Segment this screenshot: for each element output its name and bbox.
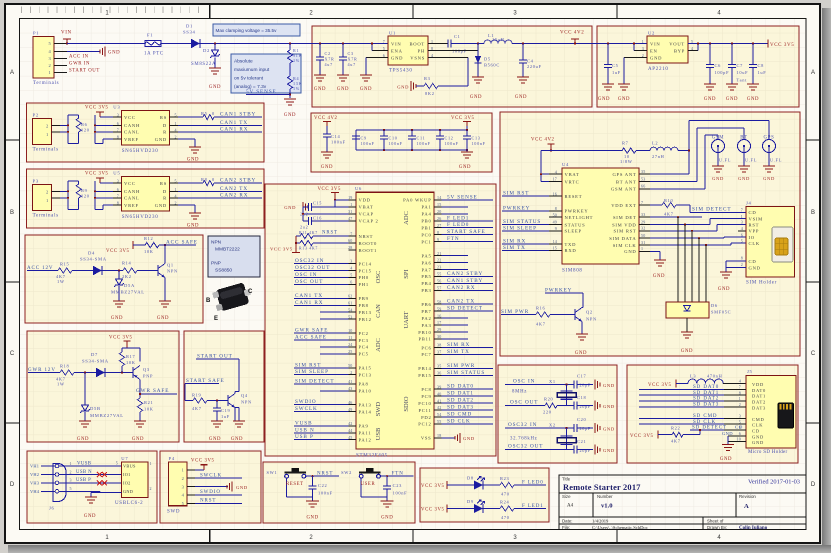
svg-text:59: 59	[437, 306, 441, 311]
svg-text:Date:: Date:	[562, 519, 573, 524]
svg-text:Revision: Revision	[739, 494, 756, 499]
svg-text:GND: GND	[108, 51, 120, 56]
svg-text:Q4: Q4	[241, 393, 248, 398]
svg-text:PB10: PB10	[418, 330, 431, 335]
svg-text:Title: Title	[562, 477, 571, 482]
svg-text:VRTC: VRTC	[565, 179, 580, 184]
svg-text:GND: GND	[575, 351, 587, 356]
svg-text:31: 31	[641, 240, 645, 245]
svg-text:U3: U3	[113, 104, 120, 109]
svg-text:1%: 1%	[293, 86, 300, 91]
svg-text:C17: C17	[577, 374, 587, 379]
svg-text:PA5: PA5	[422, 253, 432, 258]
svg-text:SW2: SW2	[341, 470, 352, 475]
svg-text:50: 50	[553, 212, 557, 217]
svg-text:SIM STATUS: SIM STATUS	[447, 370, 485, 376]
svg-text:VCC 3V5: VCC 3V5	[451, 116, 475, 121]
svg-text:F LED0: F LED0	[522, 480, 544, 485]
svg-text:16: 16	[553, 191, 557, 196]
svg-text:9: 9	[555, 226, 557, 231]
svg-text:27nH: 27nH	[652, 154, 665, 159]
svg-text:6: 6	[739, 431, 741, 436]
svg-text:PC6: PC6	[421, 345, 431, 350]
svg-text:GND: GND	[209, 85, 221, 90]
svg-text:J5: J5	[747, 369, 753, 374]
svg-text:U.FL: U.FL	[719, 158, 731, 163]
svg-text:C7: C7	[737, 63, 744, 68]
svg-text:RST: RST	[749, 222, 760, 227]
svg-text:OSC IN: OSC IN	[513, 379, 535, 385]
svg-text:2K2: 2K2	[122, 274, 132, 279]
svg-text:43: 43	[348, 386, 352, 391]
svg-text:A4: A4	[567, 504, 574, 509]
svg-text:GND: GND	[747, 97, 759, 102]
svg-text:C9: C9	[361, 136, 367, 141]
svg-text:PC3: PC3	[359, 338, 369, 343]
svg-text:3: 3	[70, 478, 72, 483]
svg-text:J4: J4	[746, 201, 752, 206]
svg-text:GND: GND	[681, 349, 693, 354]
svg-text:X7R: X7R	[348, 57, 358, 62]
svg-text:D1: D1	[186, 24, 193, 29]
svg-text:v1.0: v1.0	[601, 503, 613, 510]
svg-text:on 5v tolerant: on 5v tolerant	[234, 76, 264, 82]
svg-text:USER: USER	[361, 482, 376, 487]
svg-text:PB8: PB8	[359, 303, 369, 308]
svg-text:20pF: 20pF	[580, 426, 591, 431]
svg-text:U.FL: U.FL	[770, 158, 782, 163]
svg-text:CAN1 STBY: CAN1 STBY	[220, 112, 256, 118]
svg-text:BOOT: BOOT	[409, 41, 425, 46]
svg-text:VH1: VH1	[30, 464, 39, 469]
svg-text:GSM ANT: GSM ANT	[611, 187, 637, 192]
svg-text:8: 8	[739, 390, 741, 395]
svg-text:SIM Holder: SIM Holder	[746, 281, 777, 286]
svg-text:SWDIO: SWDIO	[200, 490, 221, 495]
svg-text:GPS ANT: GPS ANT	[612, 172, 636, 177]
svg-text:MMBZ27VAL: MMBZ27VAL	[90, 413, 124, 418]
svg-text:U6: U6	[355, 186, 362, 191]
svg-text:D: D	[163, 189, 167, 194]
svg-text:SIM STATUS: SIM STATUS	[503, 219, 541, 225]
svg-text:Remote Starter 2017: Remote Starter 2017	[563, 483, 641, 492]
svg-text:5V SENSE: 5V SENSE	[246, 89, 277, 95]
svg-text:RESET: RESET	[286, 482, 304, 487]
svg-text:CAN1 STBY: CAN1 STBY	[447, 278, 483, 284]
svg-text:1: 1	[642, 39, 644, 44]
svg-text:USBLC6-2: USBLC6-2	[115, 501, 143, 506]
svg-text:PA13: PA13	[359, 403, 372, 408]
svg-text:CAN1 RX: CAN1 RX	[220, 126, 248, 132]
svg-text:1W: 1W	[57, 279, 65, 284]
svg-text:42: 42	[348, 421, 352, 426]
svg-text:R5: R5	[201, 111, 208, 116]
svg-text:1uF: 1uF	[758, 70, 767, 75]
svg-text:SD CMD: SD CMD	[693, 414, 717, 419]
svg-text:7: 7	[350, 231, 352, 236]
svg-text:R9: R9	[81, 188, 88, 193]
svg-text:CAN2 STBY: CAN2 STBY	[447, 271, 483, 277]
svg-text:27: 27	[437, 223, 441, 228]
svg-text:GND: GND	[653, 274, 665, 279]
svg-text:1: 1	[46, 132, 48, 137]
svg-text:53: 53	[348, 314, 352, 319]
svg-text:START OUT: START OUT	[69, 69, 100, 74]
svg-text:R13 4K7: R13 4K7	[299, 246, 318, 250]
svg-text:18: 18	[437, 433, 441, 438]
svg-text:100nF: 100nF	[389, 141, 403, 146]
svg-text:38: 38	[437, 343, 441, 348]
svg-text:1: 1	[46, 198, 48, 203]
svg-text:8: 8	[741, 256, 743, 261]
svg-text:D5: D5	[484, 57, 491, 62]
svg-text:SS34: SS34	[183, 30, 196, 35]
svg-text:GND: GND	[187, 158, 199, 163]
svg-text:17: 17	[553, 177, 557, 182]
svg-text:SIM TX: SIM TX	[447, 349, 470, 355]
svg-text:TXD: TXD	[565, 242, 577, 247]
svg-text:SIM CLK: SIM CLK	[613, 243, 637, 248]
svg-text:GND: GND	[618, 97, 630, 102]
svg-text:P2: P2	[33, 113, 39, 118]
svg-text:OSC OUT: OSC OUT	[295, 279, 323, 285]
svg-text:CD: CD	[749, 210, 757, 215]
svg-text:8: 8	[437, 230, 439, 235]
svg-text:20: 20	[437, 209, 441, 214]
svg-text:GND: GND	[720, 457, 732, 462]
svg-text:SD DAT1: SD DAT1	[447, 391, 474, 397]
svg-text:GND: GND	[603, 404, 615, 409]
svg-text:Q1: Q1	[167, 263, 174, 268]
svg-text:B: B	[206, 298, 211, 304]
svg-text:4: 4	[350, 266, 352, 271]
svg-text:R11 4K7: R11 4K7	[299, 231, 318, 235]
svg-text:GND: GND	[650, 55, 662, 60]
svg-text:GWR SAFE: GWR SAFE	[295, 328, 328, 334]
svg-text:SD DAT3: SD DAT3	[693, 403, 719, 408]
svg-text:CAN: CAN	[375, 304, 382, 318]
svg-text:Terminals: Terminals	[33, 81, 59, 86]
svg-text:1: 1	[739, 396, 741, 401]
svg-text:9: 9	[437, 237, 439, 242]
svg-text:Terminals: Terminals	[33, 148, 59, 153]
svg-text:PB15: PB15	[418, 373, 431, 378]
svg-text:1W: 1W	[57, 381, 65, 386]
svg-text:GND: GND	[752, 440, 764, 445]
svg-text:U7: U7	[121, 456, 128, 461]
svg-text:NPN: NPN	[211, 240, 222, 246]
svg-text:VCC 3V5: VCC 3V5	[191, 458, 215, 463]
svg-text:470nH: 470nH	[707, 373, 723, 378]
svg-text:29: 29	[641, 219, 645, 224]
svg-text:R14: R14	[122, 260, 132, 265]
svg-text:TPS5430: TPS5430	[389, 69, 413, 74]
svg-text:GWR SAFE: GWR SAFE	[136, 388, 169, 394]
svg-text:Colin Iuliano: Colin Iuliano	[739, 526, 768, 531]
svg-text:VCAP: VCAP	[359, 212, 374, 217]
svg-text:VSS: VSS	[421, 436, 432, 441]
svg-text:C13: C13	[472, 136, 481, 141]
svg-text:PB7: PB7	[421, 309, 431, 314]
svg-text:maxiumum input: maxiumum input	[234, 67, 270, 73]
svg-text:GND: GND	[77, 437, 89, 442]
svg-text:Number: Number	[597, 494, 613, 499]
svg-text:SIM RST: SIM RST	[503, 191, 529, 197]
svg-text:R24: R24	[500, 500, 510, 505]
svg-text:1A PTC: 1A PTC	[144, 52, 164, 57]
svg-text:14: 14	[553, 239, 557, 244]
svg-text:DAT2: DAT2	[752, 400, 766, 405]
svg-text:OSC32 IN: OSC32 IN	[508, 422, 537, 428]
svg-text:R15: R15	[60, 261, 70, 266]
svg-text:VCC 3V5: VCC 3V5	[85, 171, 109, 176]
svg-text:55: 55	[437, 419, 441, 424]
svg-text:GND: GND	[321, 165, 333, 170]
svg-text:39: 39	[437, 384, 441, 389]
svg-text:SN65HVD230: SN65HVD230	[122, 215, 159, 220]
svg-text:SIM SLEEP: SIM SLEEP	[503, 225, 537, 231]
svg-text:54: 54	[437, 412, 441, 417]
svg-text:STATUS: STATUS	[565, 222, 586, 227]
svg-text:Q2: Q2	[586, 310, 593, 315]
svg-text:SD DAT0: SD DAT0	[447, 384, 474, 390]
svg-text:OSC32 OUT: OSC32 OUT	[295, 265, 330, 271]
svg-text:VH2: VH2	[30, 472, 39, 477]
svg-text:22: 22	[437, 258, 441, 263]
svg-text:C3: C3	[348, 51, 354, 56]
svg-text:100nF: 100nF	[331, 140, 346, 145]
svg-text:VCC 3V5: VCC 3V5	[106, 249, 130, 254]
svg-text:L2: L2	[652, 141, 658, 146]
svg-text:17: 17	[437, 320, 441, 325]
svg-text:GND: GND	[236, 485, 248, 490]
svg-text:NRST: NRST	[200, 499, 216, 504]
svg-text:A: A	[10, 70, 14, 76]
svg-text:SD DAT2: SD DAT2	[447, 398, 474, 404]
svg-text:DAT0: DAT0	[752, 388, 766, 393]
svg-text:8MHz: 8MHz	[512, 390, 527, 395]
svg-text:RESET: RESET	[565, 194, 583, 199]
svg-text:SMF05C: SMF05C	[711, 310, 731, 315]
svg-text:GND: GND	[459, 165, 471, 170]
svg-text:R3: R3	[424, 76, 431, 81]
svg-text:F LED0: F LED0	[447, 222, 469, 228]
svg-text:21: 21	[437, 251, 441, 256]
svg-text:Verified 2017-01-03: Verified 2017-01-03	[748, 479, 800, 486]
svg-text:START SAFE: START SAFE	[447, 229, 486, 235]
svg-text:2: 2	[49, 63, 51, 68]
svg-text:PA6: PA6	[422, 260, 432, 265]
svg-text:50: 50	[641, 233, 645, 238]
svg-text:BT ANT: BT ANT	[616, 179, 637, 184]
svg-text:11: 11	[348, 335, 352, 340]
svg-text:GND: GND	[749, 266, 761, 271]
svg-text:OSC32 IN: OSC32 IN	[295, 258, 324, 264]
svg-text:7: 7	[739, 385, 741, 390]
svg-text:C10: C10	[389, 136, 398, 141]
svg-text:VH4: VH4	[30, 489, 40, 494]
svg-text:30: 30	[437, 334, 441, 339]
svg-text:VCC 3V5: VCC 3V5	[317, 187, 341, 192]
svg-text:B: B	[10, 210, 14, 216]
svg-text:VCC 3V5: VCC 3V5	[421, 508, 445, 513]
svg-text:49: 49	[553, 220, 557, 225]
svg-text:SIM PWR: SIM PWR	[447, 363, 475, 369]
svg-text:PA9: PA9	[359, 424, 369, 429]
svg-text:GND: GND	[306, 516, 318, 521]
svg-text:X1: X1	[549, 379, 556, 384]
svg-text:C:\Users\..\Schematic.SchDoc: C:\Users\..\Schematic.SchDoc	[592, 525, 648, 530]
svg-text:100nF: 100nF	[417, 141, 431, 146]
svg-text:GND: GND	[284, 205, 296, 210]
svg-text:4K7: 4K7	[192, 406, 202, 411]
svg-text:SLEEP: SLEEP	[565, 229, 582, 234]
svg-text:10K: 10K	[126, 360, 136, 365]
svg-text:SIM DETECT: SIM DETECT	[295, 378, 334, 384]
svg-text:8: 8	[555, 206, 557, 211]
svg-text:C20: C20	[577, 417, 587, 422]
svg-text:VCC 3V5: VCC 3V5	[270, 247, 293, 252]
svg-text:D9: D9	[467, 499, 474, 504]
svg-text:OSC: OSC	[375, 271, 382, 284]
svg-text:100nF: 100nF	[361, 141, 375, 146]
svg-text:VIN: VIN	[391, 41, 401, 46]
svg-text:VOUT: VOUT	[669, 41, 685, 46]
svg-text:56: 56	[437, 279, 441, 284]
svg-text:PC9: PC9	[421, 394, 431, 399]
svg-text:PH: PH	[418, 48, 425, 53]
svg-text:DAT1: DAT1	[752, 394, 766, 399]
svg-text:PB13: PB13	[359, 310, 372, 315]
svg-text:ACC SAFE: ACC SAFE	[295, 335, 327, 341]
svg-text:SD DETECT: SD DETECT	[692, 426, 727, 431]
svg-text:PNP: PNP	[211, 261, 221, 267]
svg-text:120: 120	[81, 194, 90, 199]
svg-text:4: 4	[739, 379, 741, 384]
svg-text:Sheet of: Sheet of	[707, 519, 724, 524]
svg-text:2: 2	[70, 469, 72, 474]
svg-text:41: 41	[437, 398, 441, 403]
svg-text:R19: R19	[192, 392, 202, 397]
svg-text:VCAP 2: VCAP 2	[359, 219, 379, 224]
svg-text:SWDIO: SWDIO	[295, 399, 317, 405]
svg-text:X7R: X7R	[325, 57, 335, 62]
svg-text:28: 28	[348, 245, 352, 250]
svg-text:CAN2 TX: CAN2 TX	[447, 299, 475, 305]
svg-text:VBAT: VBAT	[565, 172, 580, 177]
svg-text:R17: R17	[126, 354, 136, 359]
svg-text:GND: GND	[598, 97, 610, 102]
svg-text:100pF: 100pF	[715, 70, 730, 75]
svg-text:CAN1 RX: CAN1 RX	[295, 300, 323, 306]
svg-text:PB0: PB0	[421, 219, 431, 224]
svg-text:SD DAT1: SD DAT1	[693, 391, 719, 396]
svg-text:D5A: D5A	[124, 283, 135, 288]
svg-text:15: 15	[553, 246, 557, 251]
svg-text:START OUT: START OUT	[197, 353, 233, 359]
svg-text:1: 1	[350, 202, 352, 207]
svg-text:0: 0	[212, 177, 215, 182]
svg-text:GND: GND	[738, 176, 750, 181]
svg-text:120: 120	[81, 128, 90, 133]
svg-text:220: 220	[543, 410, 552, 415]
svg-text:USB N: USB N	[295, 427, 315, 433]
svg-text:GND: GND	[603, 383, 615, 388]
svg-text:VCC 3V5: VCC 3V5	[630, 434, 654, 439]
svg-text:E: E	[214, 316, 218, 322]
svg-text:PB14: PB14	[418, 366, 431, 371]
svg-text:PC2: PC2	[359, 331, 369, 336]
svg-text:42: 42	[437, 405, 441, 410]
svg-text:CANL: CANL	[124, 130, 140, 135]
svg-text:SW1: SW1	[267, 470, 278, 475]
svg-text:D8: D8	[467, 476, 474, 481]
svg-text:GND: GND	[155, 203, 167, 208]
svg-text:14: 14	[437, 195, 441, 200]
svg-text:PA7: PA7	[422, 267, 432, 272]
svg-text:10K: 10K	[144, 407, 154, 412]
svg-text:66: 66	[641, 184, 645, 189]
svg-text:SDIO: SDIO	[403, 396, 410, 411]
svg-text:GND: GND	[712, 176, 724, 181]
svg-text:GND: GND	[111, 316, 123, 321]
svg-text:ACC SAFE: ACC SAFE	[166, 239, 198, 245]
svg-text:VH3: VH3	[30, 481, 40, 486]
svg-text:F1: F1	[147, 33, 153, 38]
svg-text:STM32F405: STM32F405	[356, 454, 388, 459]
svg-text:Tant: Tant	[737, 77, 748, 82]
svg-text:20pF: 20pF	[580, 404, 591, 409]
svg-text:NPN: NPN	[167, 269, 178, 274]
svg-text:GND: GND	[624, 249, 636, 254]
svg-text:R20: R20	[544, 397, 554, 402]
svg-text:49: 49	[348, 407, 352, 412]
svg-text:R: R	[163, 196, 167, 201]
svg-text:NETLIGHT: NETLIGHT	[565, 215, 594, 220]
svg-text:PC1: PC1	[421, 240, 431, 245]
svg-text:100nF: 100nF	[393, 490, 408, 495]
svg-text:U2: U2	[648, 31, 655, 36]
svg-text:NRST: NRST	[317, 471, 333, 476]
svg-text:1/8W: 1/8W	[620, 159, 633, 164]
svg-text:PC8: PC8	[421, 387, 431, 392]
svg-text:32: 32	[641, 226, 645, 231]
svg-text:VUSB: VUSB	[77, 461, 91, 466]
svg-text:P3: P3	[33, 179, 39, 184]
svg-text:5: 5	[70, 486, 72, 491]
svg-text:PWRKEY: PWRKEY	[503, 205, 530, 211]
svg-text:2: 2	[182, 476, 184, 481]
svg-text:SPI: SPI	[403, 269, 410, 278]
svg-text:VCC 4V2: VCC 4V2	[531, 138, 555, 143]
svg-text:R21: R21	[144, 400, 153, 405]
svg-text:R12: R12	[144, 236, 153, 241]
svg-text:VREF: VREF	[124, 203, 139, 208]
svg-text:PA11: PA11	[359, 431, 372, 436]
svg-text:NRST: NRST	[322, 231, 338, 236]
svg-text:GND: GND	[722, 431, 733, 436]
svg-text:START SAFE: START SAFE	[186, 378, 225, 384]
svg-text:60: 60	[348, 238, 352, 243]
svg-text:SD DAT2: SD DAT2	[693, 397, 719, 402]
svg-text:2: 2	[739, 402, 741, 407]
svg-text:ACC IN: ACC IN	[69, 55, 89, 60]
svg-text:3: 3	[741, 220, 743, 225]
svg-text:GND: GND	[718, 287, 730, 292]
svg-text:C: C	[10, 351, 15, 357]
svg-text:R7: R7	[622, 141, 629, 146]
svg-text:SWD: SWD	[375, 401, 382, 416]
